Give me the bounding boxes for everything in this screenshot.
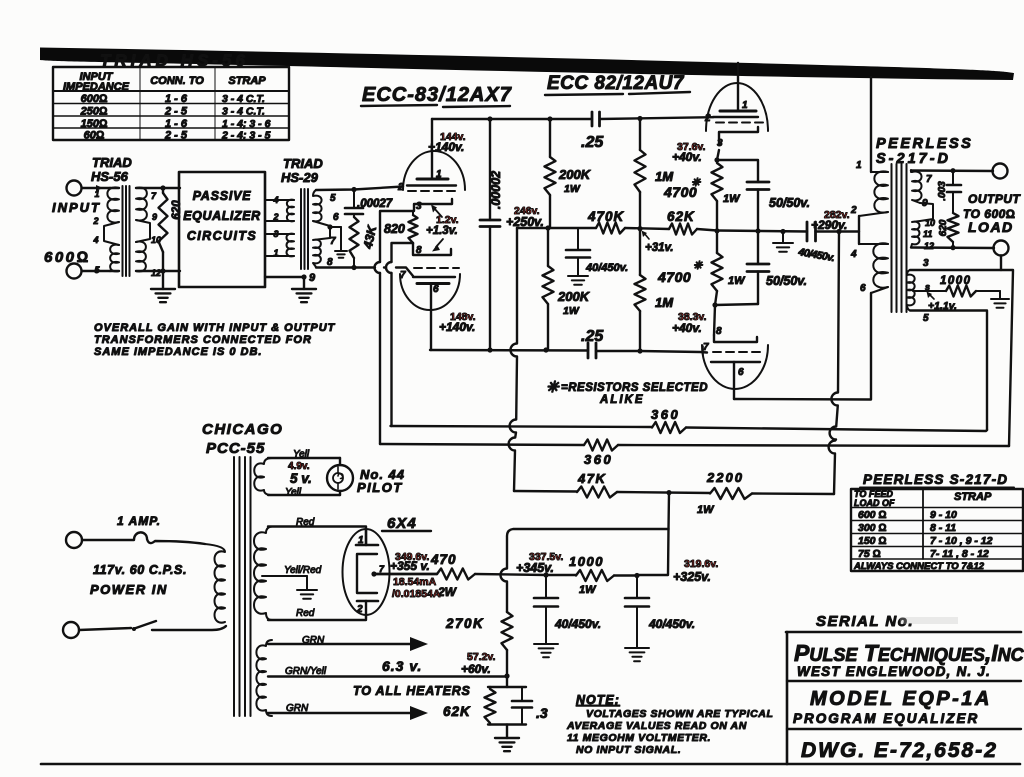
wire B+ tap down xyxy=(667,493,670,529)
svg-text:470K: 470K xyxy=(587,209,625,224)
resistor 47K xyxy=(514,490,577,493)
pilot lamp No 44 xyxy=(327,465,353,491)
wire T1 pin7 to node A xyxy=(142,187,180,189)
T2 secondary winding upper (pins 5-6) xyxy=(313,190,322,221)
svg-text:820: 820 xyxy=(384,222,405,236)
svg-text:CIRCUITS: CIRCUITS xyxy=(187,229,257,243)
power terminal hot xyxy=(66,532,82,548)
wire J2 to T1 pin5 xyxy=(82,270,110,272)
resistor 1M lower xyxy=(639,229,641,275)
strap pins 9-10 xyxy=(136,220,150,242)
svg-text:PEERLESS S-217-D: PEERLESS S-217-D xyxy=(863,472,1008,487)
T2 primary winding upper (pins 4-2) xyxy=(287,200,294,222)
stub to small ground xyxy=(330,226,341,228)
svg-text:18.54mA: 18.54mA xyxy=(393,576,437,588)
svg-text:ECC 82/12AU7: ECC 82/12AU7 xyxy=(547,73,685,94)
svg-text:7- 11 , 8 - 12: 7- 11 , 8 - 12 xyxy=(930,548,989,560)
svg-text:3: 3 xyxy=(273,229,278,239)
tube V1 upper glass xyxy=(403,151,465,190)
svg-text:+60v.: +60v. xyxy=(461,662,491,676)
resistor 820 (V1 cathode) xyxy=(412,211,414,215)
node +345v xyxy=(543,572,548,577)
svg-text:6.3 v.: 6.3 v. xyxy=(382,658,422,674)
capacitor 50/50v upper xyxy=(717,160,758,182)
capacitor .003 xyxy=(952,171,954,185)
svg-text:2: 2 xyxy=(92,216,98,226)
resistor 2200 1W xyxy=(710,488,752,499)
page top edge bar xyxy=(40,48,1014,81)
node V2b cathode xyxy=(712,302,717,307)
wire V1b plate row xyxy=(430,349,588,352)
ground 62K xyxy=(506,725,508,739)
ground below pin 9 xyxy=(292,289,316,302)
power switch xyxy=(79,628,131,630)
page bottom edge line xyxy=(41,763,1020,764)
node 1M to lower wire xyxy=(637,348,642,353)
svg-text:ALIKE: ALIKE xyxy=(599,394,645,406)
resistor 620 output xyxy=(948,213,959,242)
svg-text:1: 1 xyxy=(94,189,99,199)
T1 secondary winding lower (pins 10-12) xyxy=(136,242,146,272)
resistor 470 2W xyxy=(375,573,437,575)
feedback wire lower xyxy=(380,444,584,445)
svg-text:470: 470 xyxy=(430,552,457,567)
node .00027 tap xyxy=(351,187,356,192)
V2b cathode xyxy=(714,335,757,342)
capacitor .00027 xyxy=(353,190,355,209)
V1b cathode xyxy=(413,243,451,255)
node pin9 xyxy=(301,274,306,279)
svg-text:.00002: .00002 xyxy=(489,171,503,209)
svg-text:62K: 62K xyxy=(443,704,471,719)
svg-text:.00027: .00027 xyxy=(357,198,393,210)
svg-text:7: 7 xyxy=(703,342,709,353)
svg-text:600Ω: 600Ω xyxy=(81,93,108,105)
svg-text:TRANSFORMERS CONNECTED FOR: TRANSFORMERS CONNECTED FOR xyxy=(94,334,312,346)
svg-text:1M: 1M xyxy=(655,169,674,184)
svg-text:270K: 270K xyxy=(445,616,484,631)
svg-text:IMPEDANCE: IMPEDANCE xyxy=(63,81,130,93)
svg-text:2: 2 xyxy=(272,212,278,222)
T3 tertiary winding (pins 3-5) xyxy=(907,270,915,311)
node +325v xyxy=(634,573,639,578)
svg-text:620: 620 xyxy=(938,219,949,236)
svg-text:2200: 2200 xyxy=(706,470,744,485)
svg-text:5: 5 xyxy=(330,193,336,204)
wire +250v node down to 47K xyxy=(509,228,517,491)
svg-text:3: 3 xyxy=(416,201,422,212)
svg-text:12: 12 xyxy=(151,268,161,278)
resistor 270K xyxy=(502,612,513,650)
svg-text:2 - 5: 2 - 5 xyxy=(164,130,188,142)
svg-text:+40v.: +40v. xyxy=(672,321,702,335)
svg-text:+355 v.: +355 v. xyxy=(390,559,430,573)
capacitor .25 lower xyxy=(587,343,590,358)
svg-text:1 - 6: 1 - 6 xyxy=(165,93,188,105)
svg-text:3 - 4 C.T.: 3 - 4 C.T. xyxy=(222,106,265,118)
svg-text:ALWAYS CONNECT TO 7&12: ALWAYS CONNECT TO 7&12 xyxy=(853,561,985,572)
T3 secondary winding upper (pins 7-9) xyxy=(911,170,922,203)
svg-text:OUTPUT: OUTPUT xyxy=(968,192,1022,206)
T4 core xyxy=(233,457,235,716)
resistor 1000 tertiary xyxy=(946,286,976,297)
svg-text:.25: .25 xyxy=(581,328,604,345)
T1 secondary winding upper (pins 7-9) xyxy=(136,187,147,220)
input terminal J1 (top) xyxy=(67,181,82,196)
svg-text:4: 4 xyxy=(272,195,278,205)
resistor 43K xyxy=(353,214,355,217)
wire box to T2 pin4 xyxy=(265,199,294,201)
svg-text:6: 6 xyxy=(738,367,744,378)
V2a grid xyxy=(713,116,758,118)
svg-text:Yell/Red: Yell/Red xyxy=(284,565,322,576)
svg-text:6X4: 6X4 xyxy=(387,515,417,532)
T2 core xyxy=(300,189,302,269)
svg-text:AVERAGE VALUES READ ON AN: AVERAGE VALUES READ ON AN xyxy=(566,720,747,732)
svg-text:WEST ENGLEWOOD, N. J.: WEST ENGLEWOOD, N. J. xyxy=(797,664,991,679)
svg-text:600 Ω: 600 Ω xyxy=(858,509,887,521)
resistor 360 upper xyxy=(652,422,686,433)
tap arrow xyxy=(929,294,934,299)
svg-text:2: 2 xyxy=(704,113,711,124)
wire V2b plate to output transformer xyxy=(734,293,871,400)
svg-text:1: 1 xyxy=(273,248,278,258)
resistor 200K upper (V1a load) xyxy=(549,119,551,157)
V1b grid dashed xyxy=(414,267,459,269)
svg-text:HS-56: HS-56 xyxy=(91,169,129,184)
node plate rail to .00002 xyxy=(487,116,492,121)
resistor 4700 lower (selected) xyxy=(716,231,718,253)
svg-text:1W: 1W xyxy=(728,275,746,287)
capacitor 40/450v psu right xyxy=(636,576,638,599)
strap pins 2-4 xyxy=(104,222,119,245)
svg-text:1W: 1W xyxy=(564,183,581,195)
V2a cathode xyxy=(717,127,758,160)
heater wire arrow top xyxy=(268,643,412,645)
capacitor 40/450v psu left xyxy=(545,575,547,598)
wire T3 pin1 to B+ rail xyxy=(870,77,872,172)
svg-text:CHICAGO: CHICAGO xyxy=(202,421,283,438)
svg-text:S-217-D: S-217-D xyxy=(876,151,951,167)
wire box to T2 pin1 xyxy=(265,255,294,257)
capacitor 40/450v decoupling xyxy=(577,228,579,250)
node plate rail to 200K xyxy=(547,116,552,121)
svg-text:+1.3v.: +1.3v. xyxy=(426,225,458,237)
capacitor .00002 stem xyxy=(489,119,491,220)
T4 HV winding xyxy=(254,527,272,621)
svg-text:/0.01854A: /0.01854A xyxy=(392,588,441,600)
svg-text:50/50v.: 50/50v. xyxy=(766,274,807,288)
svg-text:1W: 1W xyxy=(697,504,715,516)
node .00002 to lower plate wire xyxy=(487,347,492,352)
svg-text:✳: ✳ xyxy=(693,260,703,272)
svg-text:1: 1 xyxy=(742,100,748,111)
node +250v xyxy=(545,225,550,230)
wire T3 secondary bottom xyxy=(911,246,994,249)
svg-text:6: 6 xyxy=(333,212,339,223)
svg-text:1 - 4; 3 - 6: 1 - 4; 3 - 6 xyxy=(222,118,271,130)
svg-text:+40v.: +40v. xyxy=(672,150,702,164)
junction tick xyxy=(644,233,649,239)
ground below 40/450v xyxy=(568,276,588,285)
wire bias to 62K xyxy=(506,676,508,687)
svg-text:1 AMP.: 1 AMP. xyxy=(117,514,161,528)
svg-text:PROGRAM EQUALIZER: PROGRAM EQUALIZER xyxy=(793,711,979,726)
svg-text:117v. 60 C.P.S.: 117v. 60 C.P.S. xyxy=(93,563,187,577)
svg-text:1000: 1000 xyxy=(569,554,604,569)
tube V2 upper glass xyxy=(706,83,768,131)
svg-text:4700: 4700 xyxy=(657,269,691,285)
wire J1 to T1 pin1 xyxy=(82,187,110,189)
svg-text:1: 1 xyxy=(358,535,364,546)
V2a plate xyxy=(720,110,756,113)
capacitor 50/50v lower xyxy=(757,231,759,264)
svg-text:7 - 10 , 9 - 12: 7 - 10 , 9 - 12 xyxy=(930,535,993,547)
svg-text:+140v.: +140v. xyxy=(428,140,464,154)
svg-text:.3: .3 xyxy=(536,705,548,721)
svg-text:60Ω: 60Ω xyxy=(84,130,105,142)
svg-text:5 v.: 5 v. xyxy=(290,471,312,486)
svg-text:1M: 1M xyxy=(655,295,674,310)
resistor 62K xyxy=(669,224,697,235)
wire box to T2 pin2 xyxy=(265,220,294,222)
input terminal J2 (bottom) xyxy=(67,264,82,279)
svg-text:319.6v.: 319.6v. xyxy=(684,558,718,570)
svg-text:TO ALL HEATERS: TO ALL HEATERS xyxy=(353,684,471,698)
node .003 tap xyxy=(950,168,955,173)
svg-text:✳: ✳ xyxy=(691,177,701,189)
wire T2 pin6 junction xyxy=(313,221,330,226)
svg-text:11 MEGOHM VOLTMETER.: 11 MEGOHM VOLTMETER. xyxy=(567,732,711,744)
output terminal bottom xyxy=(994,241,1009,256)
svg-text:40/450v.: 40/450v. xyxy=(648,617,695,631)
V1b grid xyxy=(413,276,455,278)
T1 primary winding lower (pins 4-5) xyxy=(110,245,119,272)
power terminal neutral xyxy=(63,622,79,638)
capacitor .25 upper xyxy=(591,112,594,126)
ground psu left xyxy=(534,644,558,657)
T1 core xyxy=(122,186,124,276)
cathode arrow lower xyxy=(436,239,443,247)
capacitor 40/450v coupling xyxy=(806,222,809,241)
T2 primary winding lower (pins 3-1) xyxy=(287,234,295,257)
tap wire to 1000 xyxy=(913,290,946,292)
wire 6X4 cathode out xyxy=(374,573,437,575)
svg-text:300 Ω: 300 Ω xyxy=(858,522,887,534)
svg-text:12: 12 xyxy=(924,241,934,251)
svg-text:200K: 200K xyxy=(558,167,592,182)
svg-text:+31v.: +31v. xyxy=(645,242,673,254)
feedback wire upper right xyxy=(686,428,987,432)
wire box to T2 pin3 xyxy=(265,233,294,235)
wire +250v node row xyxy=(517,227,596,229)
svg-text:PASSIVE: PASSIVE xyxy=(193,189,252,203)
svg-text:HS-29: HS-29 xyxy=(281,170,319,185)
svg-text:PEERLESS: PEERLESS xyxy=(876,136,973,152)
svg-text:TRIAD: TRIAD xyxy=(92,155,132,170)
resistor 62K bias with .3 cap xyxy=(488,686,526,688)
svg-text:2: 2 xyxy=(850,205,857,216)
tube V2 lower glass xyxy=(702,345,768,389)
svg-text:3: 3 xyxy=(717,138,723,149)
svg-text:SAME IMPEDANCE IS 0 DB.: SAME IMPEDANCE IS 0 DB. xyxy=(94,346,262,358)
node 620 bottom xyxy=(950,245,955,250)
svg-text:MODEL EQP-1A: MODEL EQP-1A xyxy=(810,688,992,710)
V1a grid xyxy=(407,184,456,186)
node B+ tap xyxy=(666,490,671,495)
svg-text:TRIAD: TRIAD xyxy=(283,156,323,171)
svg-text:Yell: Yell xyxy=(285,487,302,498)
node 43K bottom xyxy=(351,265,356,270)
svg-text:1: 1 xyxy=(856,160,862,171)
wire V1a plate rail xyxy=(432,118,592,120)
wire +325 upper run xyxy=(500,529,668,612)
svg-text:2: 2 xyxy=(397,182,404,193)
V2a grid dashed xyxy=(716,122,764,124)
svg-text:EQUALIZER: EQUALIZER xyxy=(183,209,261,223)
svg-text:LOAD OF: LOAD OF xyxy=(854,498,895,508)
resistor 4700 upper (selected) xyxy=(712,163,723,201)
svg-text:7: 7 xyxy=(330,236,336,247)
svg-text:Red: Red xyxy=(296,608,315,619)
strap pin2-pin4 with +290 feed xyxy=(858,216,860,244)
wire .25 to V2b grid xyxy=(596,350,640,352)
svg-text:CONN. TO: CONN. TO xyxy=(150,75,204,87)
svg-text:7: 7 xyxy=(926,174,932,185)
T3 primary winding upper (pins 1-2) xyxy=(874,171,888,212)
node A junction xyxy=(160,185,165,190)
svg-text:150Ω: 150Ω xyxy=(81,118,108,130)
svg-text:40/450v.: 40/450v. xyxy=(554,617,601,631)
wire cathode lower xyxy=(715,304,758,305)
svg-text:.003: .003 xyxy=(937,181,948,201)
svg-text:POWER IN: POWER IN xyxy=(90,582,168,597)
capacitor .00002 xyxy=(480,219,500,222)
V1a grid dashed xyxy=(408,190,458,192)
V1b plate xyxy=(417,282,449,285)
heater wire arrow bottom xyxy=(268,712,412,714)
svg-text:8: 8 xyxy=(416,245,422,256)
wire T1 pin12 to box xyxy=(142,270,180,272)
wire +325 right leg xyxy=(637,529,669,575)
cathode arrow upper xyxy=(434,208,442,217)
svg-text:620: 620 xyxy=(171,200,183,220)
svg-text:2 - 5: 2 - 5 xyxy=(164,106,188,118)
wire T2 pin5 to V1 grid (pin2) xyxy=(316,187,403,191)
svg-text:2: 2 xyxy=(356,604,363,615)
svg-text:STRAP: STRAP xyxy=(228,75,266,87)
T3 secondary winding lower (pins 10-12) xyxy=(911,221,920,248)
node heater bias xyxy=(504,673,509,678)
svg-text:47K: 47K xyxy=(577,471,606,486)
wire pin8 node to feedback xyxy=(392,243,414,426)
T4 5v winding xyxy=(254,458,272,495)
wire 5v top xyxy=(268,457,340,459)
node 200K to lower wire xyxy=(543,347,548,352)
svg-text:ECC-83/12AX7: ECC-83/12AX7 xyxy=(362,84,512,106)
svg-text:250Ω: 250Ω xyxy=(80,106,108,118)
svg-text:NO INPUT SIGNAL.: NO INPUT SIGNAL. xyxy=(576,744,681,756)
svg-text:DWG. E-72,658-2: DWG. E-72,658-2 xyxy=(801,739,998,762)
T3 primary winding lower (pins 4-6) xyxy=(859,243,888,245)
svg-text:62K: 62K xyxy=(667,209,695,224)
svg-text:+290v.: +290v. xyxy=(811,218,847,232)
svg-text:6: 6 xyxy=(860,283,866,294)
svg-text:11: 11 xyxy=(923,229,932,239)
resistor 1000 1W xyxy=(546,574,576,576)
fuse 1 AMP xyxy=(82,532,205,544)
wire 5v bottom xyxy=(268,494,340,496)
wire output row xyxy=(717,231,807,232)
resistor 620 (input termination) xyxy=(159,193,168,252)
svg-text:4: 4 xyxy=(850,249,857,260)
T4 primary winding xyxy=(205,544,225,623)
T4 heater winding xyxy=(256,640,272,716)
wire HV bottom to 6X4 plate2 xyxy=(268,617,366,620)
T2 secondary winding lower (pins 7-8) xyxy=(313,238,330,267)
tube V1 lower glass xyxy=(400,274,460,310)
svg-text:360: 360 xyxy=(584,452,613,467)
V1a plate xyxy=(417,178,448,181)
feedback wire lower right xyxy=(618,445,1009,446)
svg-text:360: 360 xyxy=(651,407,680,422)
svg-text:1W: 1W xyxy=(723,193,741,205)
node 6X4 cathode xyxy=(371,571,376,576)
wire T2 pin9 to ground xyxy=(265,276,304,278)
svg-text:5: 5 xyxy=(923,313,929,324)
node plate rail to 1M xyxy=(637,116,642,121)
T4 HV centre tap xyxy=(262,575,307,577)
svg-text:3: 3 xyxy=(923,258,929,269)
heater wire centre xyxy=(268,675,507,677)
svg-text:9: 9 xyxy=(309,272,316,284)
svg-text:+345v.: +345v. xyxy=(516,561,554,575)
svg-text:STRAP: STRAP xyxy=(954,491,992,503)
wire tertiary top row xyxy=(910,270,1013,446)
ground tertiary xyxy=(991,299,1009,308)
svg-text:50/50v.: 50/50v. xyxy=(769,196,810,210)
node gnd stub xyxy=(780,229,785,234)
wire pin3 node to feedback xyxy=(380,211,413,444)
svg-text:9 - 10: 9 - 10 xyxy=(930,509,957,521)
svg-text:VOLTAGES SHOWN ARE TYPICAL: VOLTAGES SHOWN ARE TYPICAL xyxy=(586,708,774,720)
svg-text:8 - 11: 8 - 11 xyxy=(930,522,956,534)
svg-text:200K: 200K xyxy=(557,289,591,304)
ground psu right xyxy=(625,648,649,661)
svg-text:600Ω: 600Ω xyxy=(44,249,91,266)
output terminal top xyxy=(993,164,1008,179)
block: passive equalizer circuits xyxy=(179,172,265,287)
T1 primary winding upper (pins 1-2) xyxy=(107,187,119,222)
resistor 1M upper xyxy=(639,118,641,150)
svg-text:NOTE:: NOTE: xyxy=(576,693,620,707)
svg-text:=RESISTORS SELECTED: =RESISTORS SELECTED xyxy=(561,382,708,394)
svg-text:3 - 4 C.T.: 3 - 4 C.T. xyxy=(222,93,265,105)
T3 core xyxy=(891,164,893,312)
svg-text:1000: 1000 xyxy=(940,275,972,287)
svg-text:.25: .25 xyxy=(581,134,604,151)
svg-text:INPUT: INPUT xyxy=(52,200,101,215)
svg-text:4: 4 xyxy=(92,235,98,245)
svg-text:75 Ω: 75 Ω xyxy=(858,548,881,560)
svg-text:1W: 1W xyxy=(563,305,580,317)
svg-text:10: 10 xyxy=(925,218,935,228)
svg-text:+325v.: +325v. xyxy=(673,570,711,584)
ground at output row xyxy=(782,232,784,244)
svg-text:+140v.: +140v. xyxy=(439,320,475,334)
strap pins 9-10 xyxy=(920,203,933,221)
node 50/50 to row xyxy=(755,228,760,233)
